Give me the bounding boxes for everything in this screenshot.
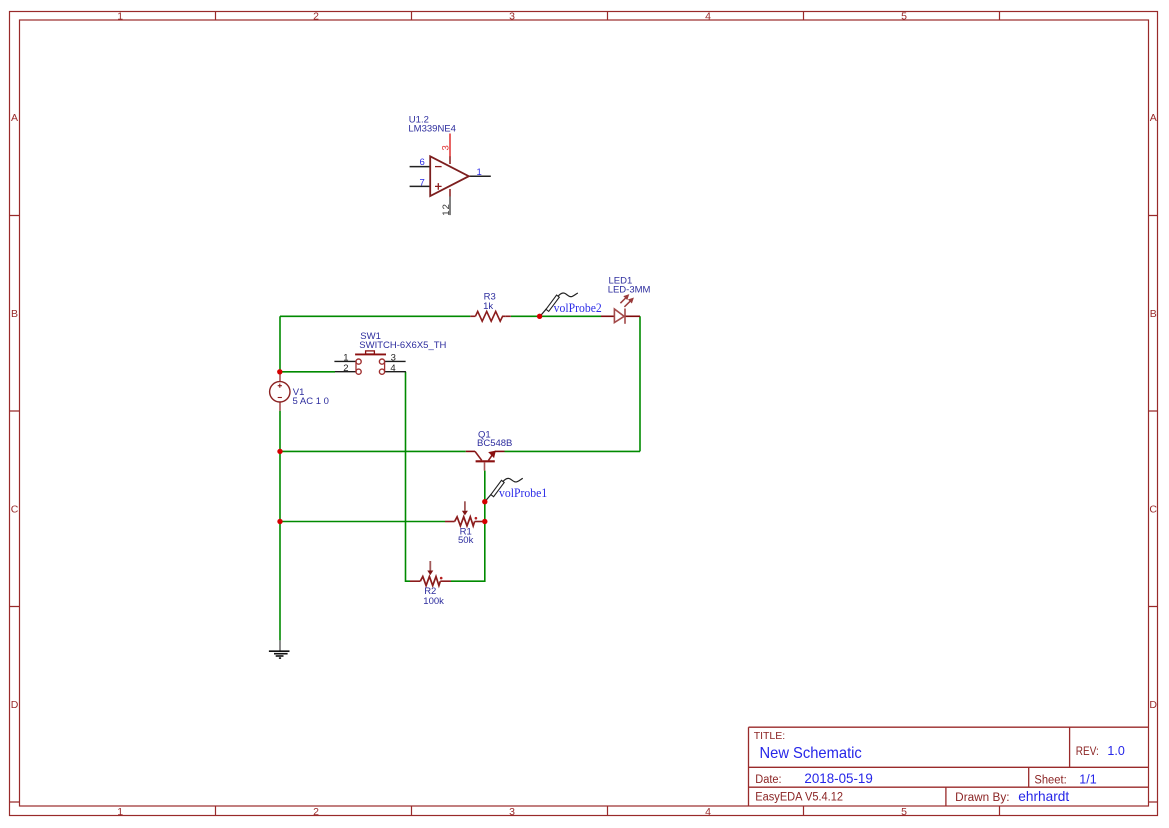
svg-text:B: B: [1150, 308, 1157, 320]
svg-text:volProbe2: volProbe2: [554, 301, 602, 315]
wire collector to left rail: [280, 450, 466, 452]
svg-text:New Schematic: New Schematic: [760, 745, 862, 762]
actuator bar: [355, 353, 386, 355]
svg-text:LED-3MM: LED-3MM: [608, 285, 651, 296]
transistor Q1: [466, 430, 513, 471]
pin 3: [385, 360, 406, 362]
svg-text:A: A: [1150, 112, 1157, 124]
svg-text:100k: 100k: [423, 596, 444, 607]
svg-text:1: 1: [117, 806, 123, 818]
pin 7: [410, 185, 431, 187]
svg-text:12: 12: [441, 203, 452, 216]
wire R3 to LED: [511, 315, 601, 317]
potentiometer R1: [445, 501, 485, 546]
contact bars: [355, 362, 357, 372]
svg-text:3: 3: [441, 145, 452, 150]
wire R1 left to rail: [280, 521, 445, 523]
svg-text:2: 2: [343, 363, 348, 374]
svg-text:3: 3: [509, 806, 515, 818]
svg-text:REV:: REV:: [1076, 746, 1099, 758]
svg-text:C: C: [1149, 504, 1157, 516]
pin 1: [334, 360, 356, 362]
svg-text:5: 5: [901, 11, 907, 23]
wire SW1 pin4 down to R2: [406, 372, 411, 582]
base stub: [484, 462, 486, 470]
ground: [269, 640, 290, 658]
switch SW1: [334, 331, 446, 374]
svg-text:D: D: [1149, 699, 1157, 711]
svg-text:3: 3: [509, 11, 515, 23]
LED LED1: [601, 276, 651, 324]
svg-text:4: 4: [705, 11, 711, 23]
pin 6: [410, 166, 431, 168]
svg-text:1.0: 1.0: [1107, 744, 1124, 758]
wire V1 junction to SW1 pin2: [280, 371, 335, 373]
svg-text:2: 2: [313, 806, 319, 818]
title block: [749, 727, 1149, 806]
svg-text:Date:: Date:: [755, 774, 781, 786]
svg-text:1: 1: [117, 11, 123, 23]
node junction R1 right: [482, 519, 487, 524]
node junction R1 rail: [277, 519, 282, 524]
svg-text:LM339NE4: LM339NE4: [408, 124, 456, 135]
svg-text:volProbe1: volProbe1: [499, 486, 547, 500]
node junction V1 top: [277, 369, 282, 374]
probe volProbe2: [540, 293, 602, 316]
svg-text:1: 1: [477, 167, 482, 178]
plus sign: [435, 183, 442, 190]
node junction volProbe2: [537, 314, 542, 319]
svg-text:SWITCH-6X6X5_TH: SWITCH-6X6X5_TH: [359, 340, 446, 351]
probe volProbe1: [485, 478, 547, 501]
wiper arrow: [464, 501, 466, 511]
wiper arrow: [429, 561, 431, 571]
svg-text:1/1: 1/1: [1079, 773, 1096, 787]
node junction collector rail: [277, 449, 282, 454]
contact circles: [356, 359, 361, 364]
pin 4: [385, 371, 406, 373]
source V1: [270, 372, 329, 411]
pin 2: [335, 371, 356, 373]
wire emitter to LED vertical: [505, 450, 641, 452]
svg-text:ehrhardt: ehrhardt: [1018, 788, 1069, 804]
wire V1 bottom to ground: [279, 411, 281, 641]
pin 3: [449, 134, 451, 158]
svg-text:A: A: [11, 112, 18, 124]
svg-text:Drawn By:: Drawn By:: [955, 792, 1009, 804]
arrows: [620, 298, 626, 304]
resistor R3: [470, 292, 511, 322]
potentiometer R2: [410, 561, 451, 607]
minus sign: [435, 166, 442, 168]
svg-text:Sheet:: Sheet:: [1034, 775, 1066, 787]
svg-text:TITLE:: TITLE:: [754, 730, 786, 742]
wire R3 left horizontal: [280, 315, 470, 317]
svg-text:1k: 1k: [483, 301, 493, 312]
emitter: [488, 454, 493, 461]
svg-text:BC548B: BC548B: [477, 438, 512, 449]
wire base riser Q1 to R1 junction: [484, 471, 486, 522]
svg-text:B: B: [11, 308, 18, 320]
svg-text:C: C: [11, 504, 19, 516]
svg-text:5 AC 1 0: 5 AC 1 0: [293, 396, 329, 407]
svg-text:6: 6: [420, 157, 425, 168]
wire LED down vertical: [639, 316, 641, 451]
collector pin: [466, 450, 475, 452]
svg-text:4: 4: [705, 806, 711, 818]
triangle body: [430, 156, 469, 196]
wire R2 right to vertical riser: [451, 522, 485, 582]
svg-text:50k: 50k: [458, 535, 474, 546]
wire V1 top to R3 corner vertical: [279, 316, 281, 372]
node junction volProbe1: [482, 499, 487, 504]
svg-text:5: 5: [901, 806, 907, 818]
svg-text:2: 2: [313, 11, 319, 23]
pin 1: [469, 175, 491, 177]
svg-text:7: 7: [420, 177, 425, 188]
pin 12: [449, 196, 451, 215]
svg-text:4: 4: [390, 363, 395, 374]
op-amp U1: [408, 115, 490, 216]
svg-text:EasyEDA V5.4.12: EasyEDA V5.4.12: [755, 792, 843, 804]
base bar: [476, 460, 495, 462]
svg-text:D: D: [11, 699, 19, 711]
svg-text:2018-05-19: 2018-05-19: [804, 771, 872, 786]
